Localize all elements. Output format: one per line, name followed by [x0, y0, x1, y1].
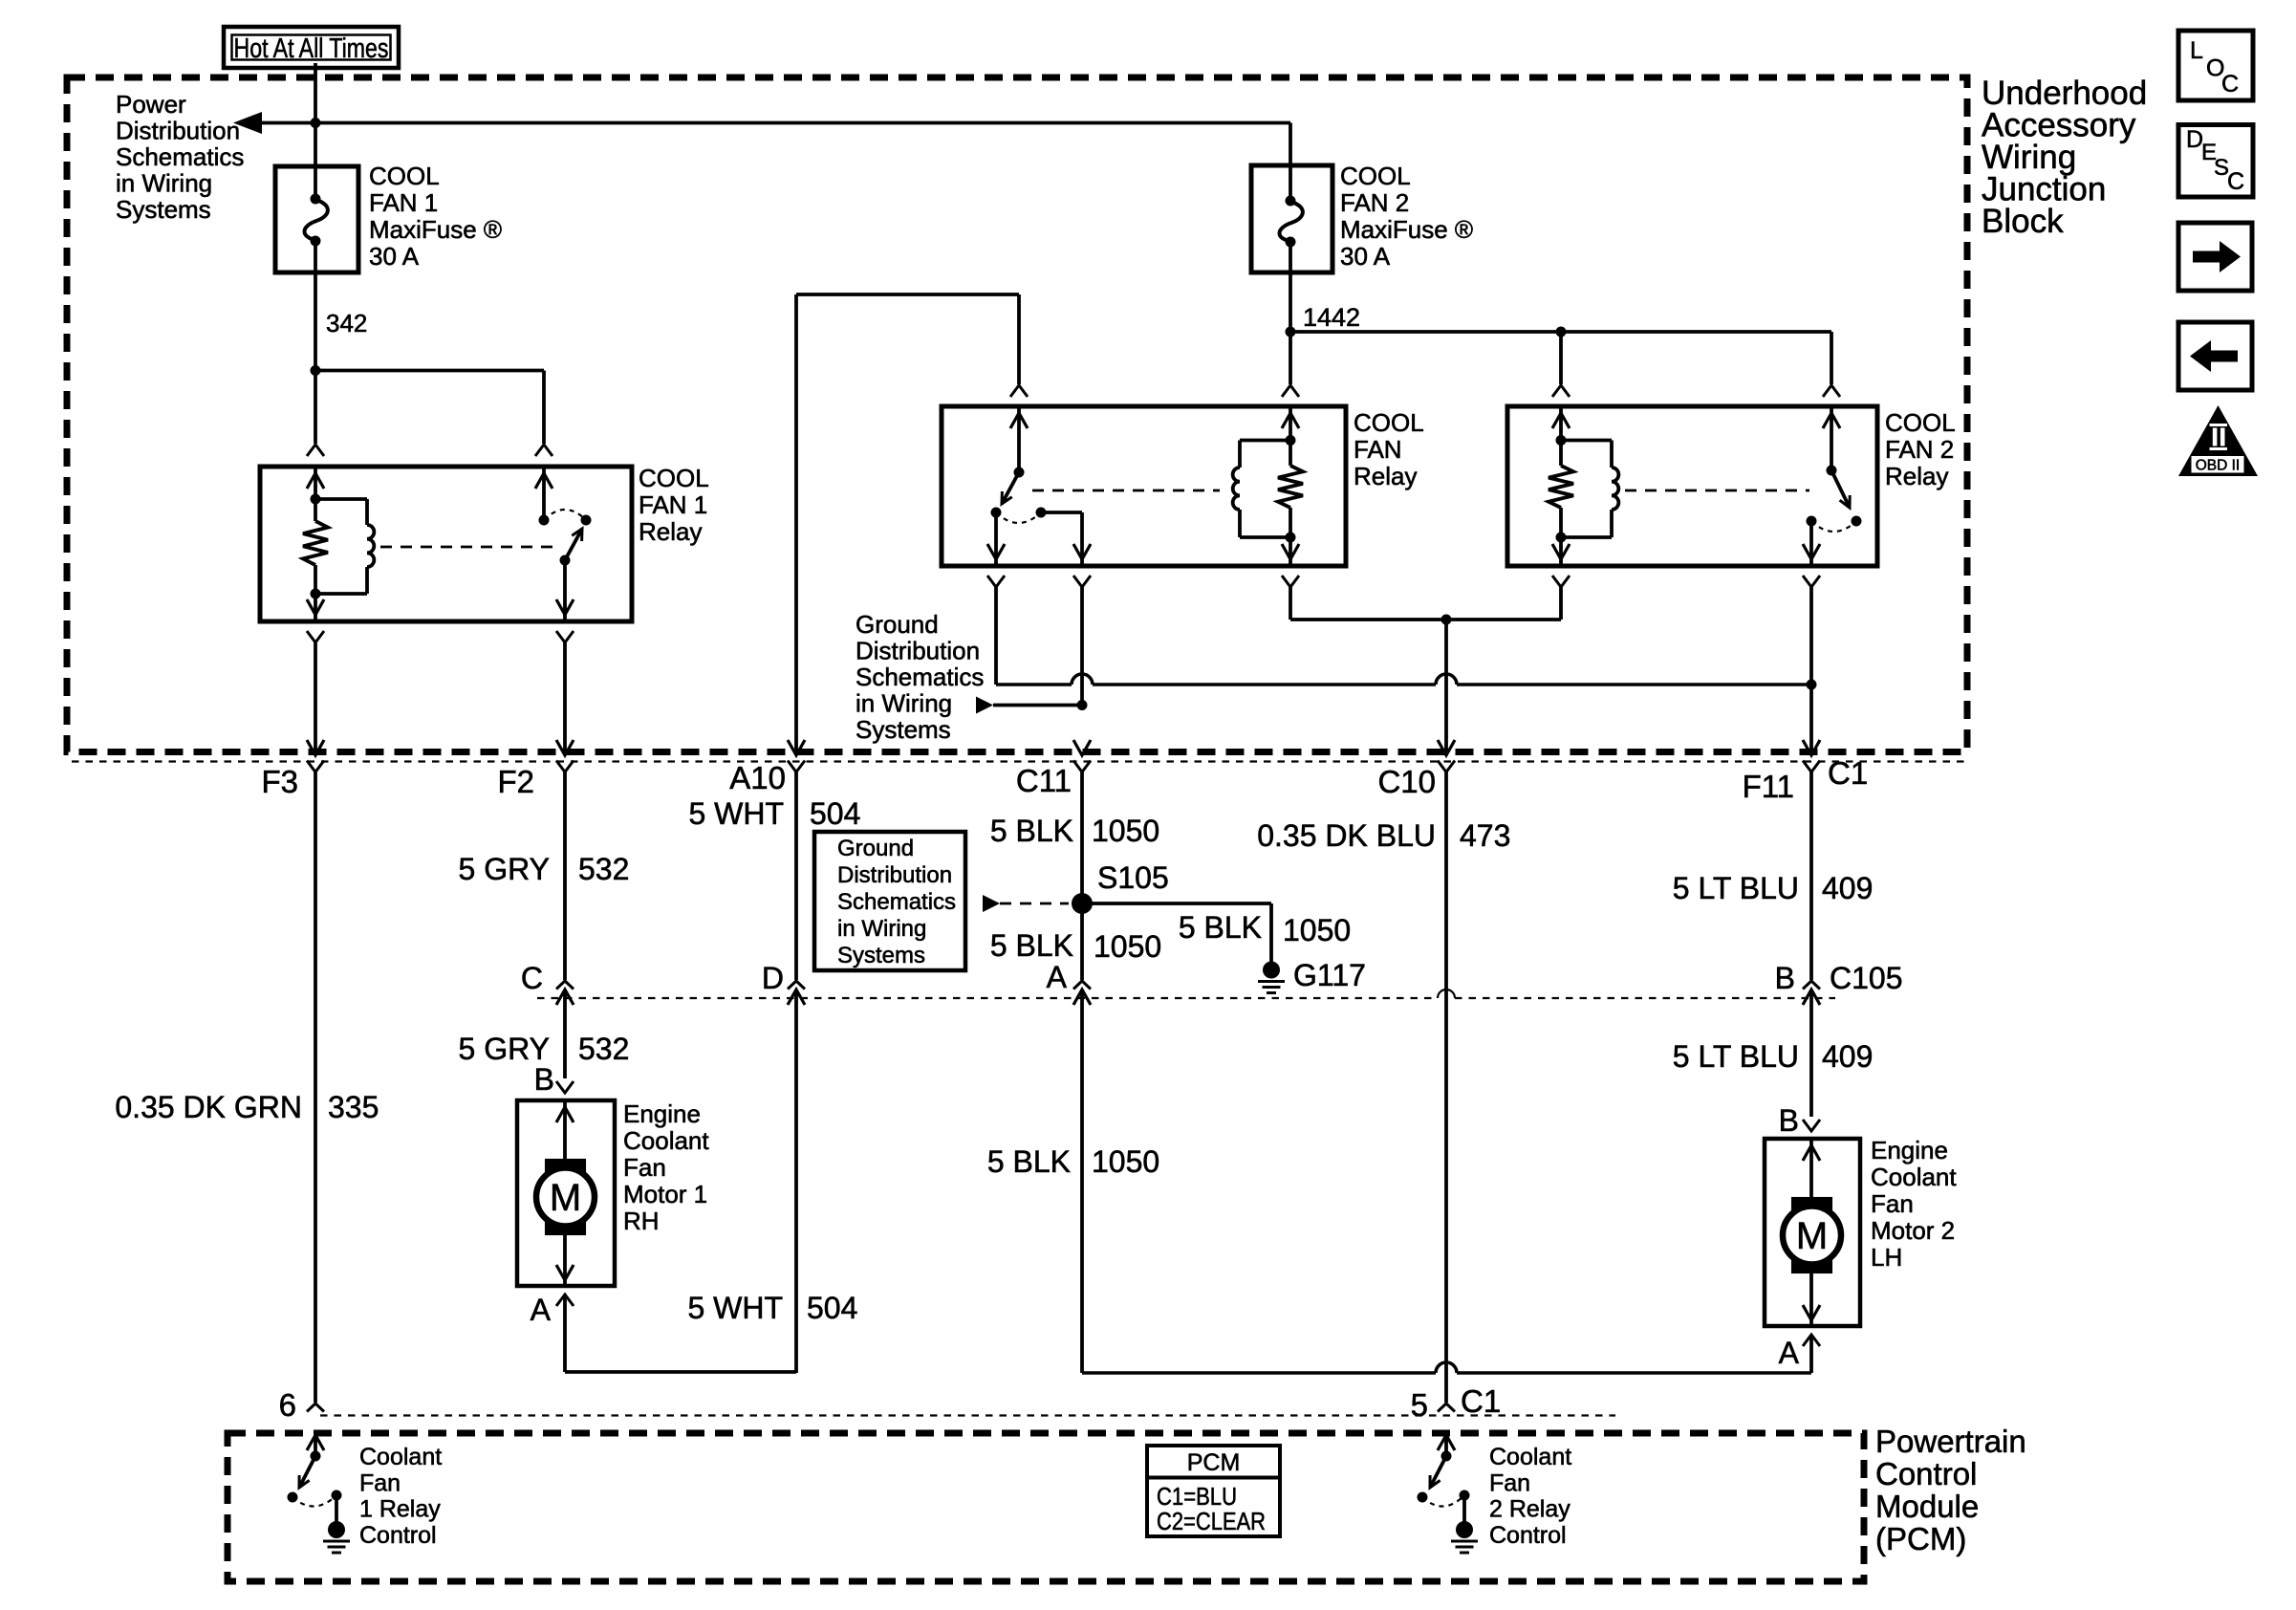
label: COOL FAN 2 MaxiFuse 30 A — [1340, 162, 1473, 271]
svg-text:Engine: Engine — [623, 1099, 701, 1128]
component connector dashed line — [537, 990, 1835, 998]
PCM fan1 control contact left — [288, 1492, 298, 1503]
relay output2 wire — [1041, 512, 1091, 566]
svg-text:Ground: Ground — [856, 610, 939, 639]
svg-text:in Wiring: in Wiring — [116, 169, 212, 198]
svg-text:B: B — [1779, 1103, 1799, 1138]
node: relay2 coil branch — [1556, 327, 1567, 337]
svg-text:FAN 2: FAN 2 — [1340, 188, 1409, 217]
label A (connector) — [1047, 960, 1068, 994]
label F3 — [261, 764, 298, 799]
connector chevron relay2 switch pin — [1823, 385, 1840, 397]
PCM fan2 control contact right — [1460, 1490, 1470, 1501]
label C1 at PCM — [1461, 1383, 1501, 1419]
svg-text:1050: 1050 — [1094, 929, 1161, 964]
relay2 switch input wire — [1823, 406, 1840, 470]
svg-text:409: 409 — [1822, 871, 1873, 905]
relay switch NC contact — [1036, 508, 1047, 518]
svg-text:Fan: Fan — [1871, 1189, 1914, 1218]
connector 5/C1 crossing — [1438, 1403, 1455, 1456]
svg-text:Engine: Engine — [1871, 1136, 1948, 1164]
relay2 switch pivot — [1827, 466, 1837, 476]
relay2 coil output wire — [1552, 537, 1570, 566]
resistor in relay2 — [1549, 441, 1573, 538]
label G117 — [1293, 958, 1366, 992]
label A at motor1 — [531, 1293, 552, 1327]
resistor in relay1 — [303, 499, 328, 594]
svg-text:1050: 1050 — [1092, 814, 1159, 848]
svg-text:Coolant: Coolant — [1871, 1163, 1957, 1191]
label: Coolant Fan 1 Relay Control — [359, 1444, 442, 1549]
relay2 switch blade — [1831, 470, 1850, 508]
label: Engine Coolant Fan Motor 1 RH — [623, 1099, 709, 1235]
PCM fan1 control contact right — [332, 1490, 342, 1501]
svg-text:LH: LH — [1871, 1243, 1902, 1272]
svg-text:1442: 1442 — [1303, 303, 1360, 332]
svg-text:2 Relay: 2 Relay — [1489, 1496, 1570, 1523]
motor1 feed wire — [556, 1100, 574, 1168]
svg-text:Schematics: Schematics — [837, 889, 956, 915]
label A10 — [729, 760, 786, 795]
svg-text:Control: Control — [359, 1522, 437, 1549]
PCM fan1 control ground — [323, 1495, 350, 1553]
wire: coil ground bus — [1290, 618, 1561, 621]
wire C11 to S105 — [1080, 772, 1084, 904]
motor M2 box: Engine Coolant Fan Motor 2 LH — [1765, 1139, 1860, 1326]
fuse F2 box: COOL FAN 2 MaxiFuse 30A — [1251, 165, 1332, 272]
svg-text:Hot At All Times: Hot At All Times — [234, 33, 389, 64]
junction node on hot feed — [311, 118, 321, 128]
coil in relay1 — [315, 499, 374, 594]
label C11 — [1016, 763, 1072, 798]
wire: hot feed from Hot At All Times box — [314, 63, 317, 166]
label: Ground Distribution Schematics in Wiring Systems — [856, 610, 984, 744]
relay switch input wire — [1010, 406, 1028, 472]
svg-text:Block: Block — [1982, 203, 2064, 240]
node: outputs bus at C1 wire — [1807, 680, 1817, 690]
connector chevron motor2 B — [1803, 1120, 1820, 1131]
wire label 5 GRY 532 (lower) — [459, 1032, 630, 1066]
wire A10 riser — [794, 294, 798, 752]
wire F3 to PCM pin 6 — [314, 772, 317, 1403]
svg-text:Coolant: Coolant — [359, 1444, 442, 1470]
svg-text:Control: Control — [1489, 1522, 1567, 1549]
relay K1 box: COOL FAN 1 Relay — [260, 467, 632, 621]
coil in relay — [1233, 441, 1290, 538]
motor M1 box: Engine Coolant Fan Motor 1 RH — [517, 1100, 615, 1286]
PCM connector dashed line — [320, 1414, 1615, 1416]
motor2 return wire — [1803, 1264, 1820, 1326]
fuse F1 box: COOL FAN 1 MaxiFuse 30A — [275, 166, 358, 272]
wire: 1442 bus to cool fan 2 relay — [1290, 332, 1831, 384]
relay1 coil pin wire — [307, 467, 324, 499]
svg-text:0.35 DK BLU: 0.35 DK BLU — [1257, 818, 1436, 853]
svg-text:Ground: Ground — [837, 836, 914, 861]
power distribution takeoff arrow — [233, 112, 262, 134]
svg-text:C105: C105 — [1830, 961, 1903, 995]
svg-text:Systems: Systems — [856, 715, 951, 744]
svg-text:5 LT BLU: 5 LT BLU — [1673, 871, 1799, 905]
relay mechanical link dashed — [1032, 490, 1220, 492]
connector crossing F2 at junction block — [556, 740, 574, 772]
wire F2 to connector C — [563, 772, 567, 981]
wire label 5 BLK 1050 (branch) — [1179, 910, 1351, 947]
svg-text:Motor 1: Motor 1 — [623, 1180, 707, 1208]
label D — [762, 961, 784, 995]
svg-text:B: B — [534, 1062, 554, 1097]
splice node S105 — [1072, 893, 1093, 914]
svg-text:473: 473 — [1460, 818, 1510, 853]
ground distribution pointer arrow — [976, 697, 1082, 714]
relay1 coil bottom node — [311, 589, 321, 599]
wire label 0.35 DK GRN 335 — [115, 1090, 379, 1124]
boxed note: Ground Distribution Schematics in Wiring Systems — [814, 832, 965, 970]
PCM fan1 travel arc dashed — [292, 1495, 336, 1507]
wire S105 to connector A — [1080, 903, 1084, 980]
icon: forward arrow box — [2178, 223, 2252, 291]
relay coil output wire — [1282, 537, 1299, 566]
svg-text:(PCM): (PCM) — [1875, 1521, 1966, 1556]
motor M2 symbol — [1783, 1197, 1841, 1273]
svg-text:C10: C10 — [1377, 764, 1436, 799]
connector row dashed line (underhood bottom) — [72, 760, 1967, 762]
motor M1 symbol — [536, 1159, 595, 1235]
wire motor2 A to ground run — [1082, 1337, 1811, 1373]
label A at motor2 — [1779, 1336, 1800, 1370]
relay2 switch output wire — [1803, 521, 1820, 566]
svg-text:G117: G117 — [1293, 958, 1366, 992]
svg-text:Fan: Fan — [1489, 1469, 1530, 1496]
label: Underhood Accessory Wiring Junction Block — [1982, 75, 2147, 240]
relay1 switch blade — [560, 529, 583, 566]
wire C1 to connector B C105 — [1809, 772, 1813, 981]
svg-text:COOL: COOL — [369, 162, 440, 190]
label: Coolant Fan 2 Relay Control — [1489, 1444, 1571, 1549]
label: Power Distribution Schematics in Wiring Systems — [116, 90, 244, 224]
svg-text:MaxiFuse ®: MaxiFuse ® — [369, 215, 502, 244]
svg-text:A: A — [531, 1293, 552, 1327]
connector crossing C11 at junction block — [1073, 740, 1091, 772]
svg-text:FAN 2: FAN 2 — [1885, 435, 1954, 464]
connector chevron relay coil out — [1282, 576, 1299, 620]
svg-text:RH: RH — [623, 1207, 660, 1235]
label: COOL FAN Relay — [1354, 408, 1424, 490]
svg-text:MaxiFuse ®: MaxiFuse ® — [1340, 215, 1473, 244]
connector C crossing — [556, 981, 574, 1078]
svg-text:Fan: Fan — [623, 1153, 666, 1182]
connector chevron motor1 A — [556, 1295, 574, 1306]
svg-text:in Wiring: in Wiring — [837, 916, 926, 942]
PCM fan2 control switch blade — [1430, 1456, 1446, 1488]
relay2 coil input wire — [1552, 406, 1570, 441]
wire: C10 drop from coil bus — [1444, 620, 1448, 752]
wire label 5 BLK 1050 (below S105) — [990, 928, 1161, 964]
resistor in relay — [1278, 441, 1303, 538]
relay1 coil top node — [311, 494, 321, 505]
relay1 switch travel arc dashed — [544, 510, 586, 520]
relay1 coil output wire — [307, 594, 324, 621]
relay2 switch output contact — [1807, 516, 1817, 527]
relay1 switch output wire — [556, 560, 574, 621]
connector chevron relay1 pin right top — [535, 445, 552, 456]
svg-text:M: M — [1796, 1215, 1828, 1257]
svg-text:C: C — [2221, 71, 2239, 98]
svg-text:5 WHT: 5 WHT — [688, 796, 784, 831]
node: C11 wire at ground pointer — [1077, 700, 1088, 710]
connector 6 crossing — [307, 1403, 324, 1456]
PCM fan1 control switch pivot — [311, 1451, 321, 1462]
label C1 (underhood) — [1828, 755, 1868, 791]
connector D crossing — [788, 981, 805, 1373]
svg-text:Powertrain: Powertrain — [1875, 1424, 2026, 1459]
wire: branch to relay1 switch pin — [315, 371, 544, 445]
svg-text:PCM: PCM — [1187, 1449, 1241, 1476]
icon: DESC box — [2178, 125, 2253, 198]
wire: C1 drop to connector — [1809, 685, 1813, 752]
relay1 switch input wire — [535, 467, 552, 520]
svg-text:532: 532 — [578, 1032, 629, 1066]
label: COOL FAN 1 Relay — [639, 464, 709, 546]
svg-text:5 BLK: 5 BLK — [990, 928, 1073, 963]
label C10 — [1377, 764, 1436, 799]
svg-text:0.35 DK GRN: 0.35 DK GRN — [115, 1090, 302, 1124]
svg-text:COOL: COOL — [639, 464, 709, 492]
svg-text:C: C — [521, 961, 543, 995]
wire label 5 LT BLU 409 (upper) — [1673, 871, 1874, 905]
svg-text:F2: F2 — [497, 764, 534, 799]
connector crossing F3 at junction block — [307, 740, 324, 772]
wire: A10 riser to relay switch pin — [796, 294, 1019, 384]
relay2 switch travel arc dashed — [1811, 521, 1856, 532]
svg-text:30 A: 30 A — [369, 242, 420, 271]
relay K2 box: COOL FAN 2 Relay — [1507, 406, 1877, 566]
svg-text:C11: C11 — [1016, 763, 1072, 798]
svg-text:COOL: COOL — [1354, 408, 1424, 437]
svg-text:COOL: COOL — [1885, 408, 1956, 437]
svg-text:5 GRY: 5 GRY — [459, 852, 550, 886]
svg-text:6: 6 — [279, 1387, 296, 1423]
svg-text:Systems: Systems — [116, 195, 211, 224]
svg-text:Distribution: Distribution — [856, 637, 980, 665]
svg-text:C1: C1 — [1828, 755, 1868, 791]
connector B/C105 crossing — [1803, 981, 1820, 1117]
connector A crossing — [1073, 981, 1091, 1373]
svg-text:in Wiring: in Wiring — [856, 689, 952, 718]
ground G117 — [1258, 962, 1285, 993]
relay output1 wire — [987, 512, 1005, 566]
wire: fuse1 to relay1 segment — [314, 272, 317, 444]
svg-text:5 LT BLU: 5 LT BLU — [1673, 1039, 1799, 1074]
svg-text:Power: Power — [116, 90, 186, 119]
PCM dashed border — [227, 1433, 1864, 1581]
wire: 1442 down to cool fan relay coil — [1289, 332, 1292, 384]
wire label 5 BLK 1050 (above S105) — [990, 814, 1159, 848]
svg-text:FAN: FAN — [1354, 435, 1402, 464]
svg-text:COOL: COOL — [1340, 162, 1411, 190]
wire motor1 A to D wire — [565, 1296, 796, 1372]
wire: power distribution line to Cool Fan 2 fuse — [262, 123, 1290, 166]
relay1 switch input contact — [539, 515, 550, 526]
icon: back arrow box — [2178, 322, 2252, 390]
PCM fan2 control ground — [1451, 1495, 1478, 1553]
connector chevron relay switch pin — [1010, 385, 1028, 397]
wire: branch down to relay2 coil — [1559, 332, 1563, 384]
wire: S105 branch to G117 — [1082, 903, 1271, 962]
label B at C105 — [1775, 961, 1795, 995]
svg-text:Systems: Systems — [837, 943, 925, 968]
relay K box: COOL FAN Relay — [942, 406, 1346, 566]
svg-text:Coolant: Coolant — [1489, 1444, 1571, 1470]
svg-text:532: 532 — [578, 852, 629, 886]
label box: Hot At All Times — [224, 27, 399, 68]
svg-text:Motor 2: Motor 2 — [1871, 1216, 1955, 1245]
svg-text:1050: 1050 — [1283, 913, 1351, 947]
label B at motor2 — [1779, 1103, 1799, 1138]
node: coil bus to C10 — [1441, 615, 1452, 625]
svg-text:M: M — [550, 1177, 581, 1219]
S105 splice pointer dashed — [983, 895, 1069, 912]
relay switch travel arc dashed — [996, 512, 1041, 523]
wire C10 to PCM pin 5 — [1444, 772, 1448, 1403]
relay1 switch NC contact — [581, 515, 592, 526]
label 6 at PCM — [279, 1387, 296, 1423]
wire: fuse2 down to 1442 junction — [1289, 272, 1292, 332]
svg-text:Relay: Relay — [639, 517, 702, 546]
svg-text:OBD II: OBD II — [2196, 458, 2241, 474]
svg-text:335: 335 — [328, 1090, 379, 1124]
connector crossing C1/F11 at junction block — [1803, 740, 1820, 772]
icon: LOC box — [2178, 31, 2253, 100]
relay2 mechanical link dashed — [1625, 490, 1809, 492]
label C105 — [1830, 961, 1903, 995]
PCM fan2 control switch pivot — [1441, 1451, 1452, 1462]
relay coil bottom node — [1286, 533, 1296, 543]
connector chevron relay1 pin left top — [307, 445, 324, 456]
svg-text:5 BLK: 5 BLK — [1179, 910, 1262, 945]
svg-text:Control: Control — [1875, 1456, 1977, 1491]
PCM fan2 travel arc dashed — [1422, 1495, 1464, 1507]
relay coil input wire — [1282, 406, 1299, 441]
svg-text:B: B — [1775, 961, 1795, 995]
PCM legend box — [1147, 1446, 1280, 1536]
label S105 — [1097, 860, 1169, 895]
connector chevron relay out1 — [987, 576, 1005, 685]
relay2 coil top node — [1556, 435, 1567, 446]
wire label 5 BLK 1050 (ground run) — [987, 1144, 1159, 1179]
svg-text:1 Relay: 1 Relay — [359, 1496, 441, 1523]
svg-text:5 GRY: 5 GRY — [459, 1032, 550, 1066]
svg-text:Relay: Relay — [1885, 462, 1948, 490]
svg-text:F3: F3 — [261, 764, 298, 799]
svg-text:S105: S105 — [1097, 860, 1169, 895]
wire A10 to connector D — [794, 772, 798, 981]
icon: OBD II triangle — [2178, 405, 2258, 476]
wire label 5 LT BLU 409 (lower) — [1673, 1039, 1874, 1074]
connector chevron relay2 coil pin — [1552, 385, 1570, 397]
svg-text:Schematics: Schematics — [856, 663, 984, 691]
wire: relay outputs bus to C1 — [996, 674, 1811, 685]
svg-text:Coolant: Coolant — [623, 1126, 709, 1155]
label B at motor1 — [534, 1062, 554, 1097]
svg-text:Module: Module — [1875, 1489, 1979, 1524]
underhood junction block dashed border — [67, 77, 1967, 752]
relay2 coil bottom node — [1556, 533, 1567, 543]
label C — [521, 961, 543, 995]
svg-text:Distribution: Distribution — [116, 117, 240, 145]
label: Engine Coolant Fan Motor 2 LH — [1871, 1136, 1957, 1272]
connector chevron relay2 coil out — [1552, 576, 1570, 620]
label: COOL FAN 2 Relay — [1885, 408, 1956, 490]
connector chevron relay1 bottom left — [307, 631, 324, 752]
svg-text:Distribution: Distribution — [837, 862, 952, 888]
svg-text:504: 504 — [810, 796, 860, 831]
node: 1442 junction — [1286, 327, 1296, 337]
motor1 return wire — [556, 1226, 574, 1286]
svg-text:F11: F11 — [1743, 769, 1794, 804]
svg-text:L: L — [2190, 37, 2203, 64]
svg-text:5 BLK: 5 BLK — [990, 814, 1073, 848]
svg-text:FAN 1: FAN 1 — [369, 188, 438, 217]
svg-text:FAN 1: FAN 1 — [639, 490, 707, 519]
relay coil top node — [1286, 435, 1296, 446]
wire label 5 WHT 504 (A10) — [688, 796, 860, 831]
relay switch pivot — [1014, 468, 1025, 478]
wire label 5 WHT 504 (motor1) — [687, 1291, 857, 1325]
svg-text:Fan: Fan — [359, 1469, 401, 1496]
svg-text:C2=CLEAR: C2=CLEAR — [1157, 1507, 1266, 1535]
motor2 feed wire — [1803, 1139, 1820, 1207]
wire label 0.35 DK BLU 473 — [1257, 818, 1510, 853]
svg-text:A: A — [1047, 960, 1068, 994]
connector chevron relay1 bottom right — [556, 631, 574, 752]
label F11 — [1743, 769, 1794, 804]
connector chevron relay2 switch out — [1803, 576, 1820, 685]
relay1 mechanical link dashed — [380, 546, 557, 549]
PCM fan1 control switch blade — [299, 1456, 315, 1488]
svg-text:5: 5 — [1411, 1387, 1428, 1423]
label: COOL FAN 1 MaxiFuse 30 A — [369, 162, 502, 271]
relay switch output contact — [991, 508, 1002, 518]
PCM fan2 control contact left — [1418, 1492, 1428, 1503]
wire label 5 GRY 532 (upper) — [459, 852, 630, 886]
wire label 1442 — [1303, 303, 1360, 332]
connector crossing A10 at junction block — [788, 740, 805, 772]
svg-text:30 A: 30 A — [1340, 242, 1391, 271]
connector chevron relay coil pin — [1282, 385, 1299, 397]
connector chevron relay out2 — [1073, 576, 1091, 706]
svg-text:Schematics: Schematics — [116, 142, 244, 171]
svg-text:1050: 1050 — [1092, 1144, 1159, 1179]
connector chevron motor1 B — [556, 1081, 574, 1093]
svg-text:5 WHT: 5 WHT — [687, 1291, 783, 1325]
connector chevron motor2 A — [1803, 1335, 1820, 1346]
relay2 switch NC contact — [1852, 516, 1862, 527]
svg-text:Relay: Relay — [1354, 462, 1417, 490]
svg-text:409: 409 — [1822, 1039, 1873, 1074]
wire label 342 — [326, 309, 367, 337]
label F2 — [497, 764, 534, 799]
svg-text:5 BLK: 5 BLK — [987, 1144, 1071, 1179]
svg-text:A10: A10 — [729, 760, 786, 795]
label: Powertrain Control Module (PCM) — [1875, 1424, 2026, 1556]
junction node 342 branch — [311, 365, 321, 376]
coil in relay2 — [1561, 441, 1618, 538]
svg-text:D: D — [762, 961, 784, 995]
svg-text:504: 504 — [807, 1291, 857, 1325]
connector crossing C10 at junction block — [1438, 740, 1455, 772]
svg-text:C1: C1 — [1461, 1383, 1501, 1419]
svg-text:C: C — [2227, 168, 2244, 195]
